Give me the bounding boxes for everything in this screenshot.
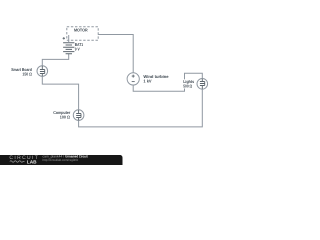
- wire lights bottom down, bottom rail left to computer: [79, 89, 203, 127]
- watermark box: [0, 155, 123, 168]
- battery BAT1 plates: [63, 43, 74, 54]
- svg-text:9 V: 9 V: [75, 46, 80, 51]
- svg-text:1 kV: 1 kV: [143, 79, 151, 84]
- battery plus sign: [63, 37, 65, 39]
- motor box U1 (dashed): [67, 27, 98, 40]
- watermark logo resistor zigzag: [10, 161, 25, 163]
- svg-text:100 Ω: 100 Ω: [60, 115, 71, 120]
- lights lamp filament: [200, 79, 205, 89]
- smart board lamp filament: [40, 66, 45, 76]
- svg-text:150 Ω: 150 Ω: [22, 72, 32, 77]
- svg-text:LAB: LAB: [27, 159, 38, 164]
- smart board lamp L1: [37, 66, 48, 77]
- wire motor right pin to corner and down to wind turbine: [98, 35, 133, 73]
- wire smart board top up to battery minus: [42, 54, 68, 66]
- svg-text:MOTOR: MOTOR: [74, 28, 88, 33]
- wind turbine minus sign: [132, 81, 135, 83]
- battery positive stem into motor box: [68, 35, 70, 43]
- wind turbine V1 (voltage source circle): [127, 73, 139, 85]
- wind turbine plus sign: [132, 75, 135, 78]
- wire wind turbine bottom jog to lights top: [133, 73, 202, 91]
- svg-text:http://circuitlab.com/czg9nlc: http://circuitlab.com/czg9nlc: [43, 158, 79, 162]
- svg-text:500 Ω: 500 Ω: [183, 84, 192, 89]
- computer lamp L2: [73, 110, 84, 121]
- lights label white background: [183, 79, 198, 88]
- computer lamp filament: [76, 110, 81, 120]
- lights lamp L3: [197, 79, 208, 90]
- wire computer top up and left to smart board bottom: [42, 76, 78, 110]
